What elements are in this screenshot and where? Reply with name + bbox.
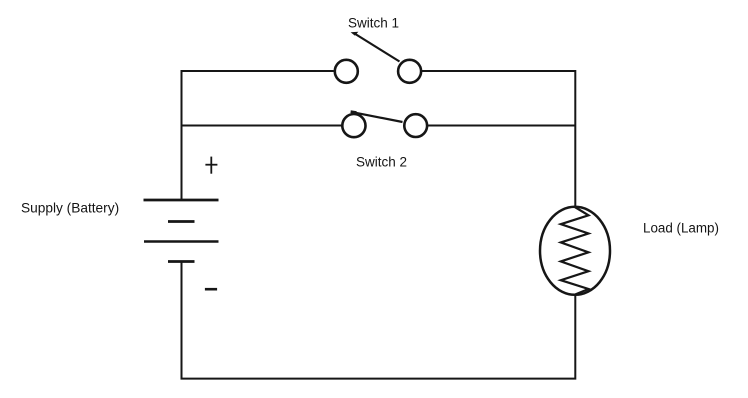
switch S1 left terminal circle: [335, 60, 358, 83]
battery B1 long plate (lower): [144, 240, 219, 242]
wire top rail left (battery top to Switch 1 left terminal): [182, 71, 334, 200]
switch S2 lever (nearly closed blade): [351, 112, 403, 122]
battery B1 positive plate (top long): [144, 199, 219, 202]
lamp LP1 filament zigzag: [561, 207, 589, 295]
battery B1 negative plate (bottom short): [168, 260, 195, 263]
battery plus symbol: [205, 157, 217, 174]
switch S2 right terminal circle: [404, 114, 427, 137]
svg-text:Supply (Battery): Supply (Battery): [21, 200, 119, 215]
switch S1 lever arrow tip: [351, 32, 359, 36]
svg-text:Switch 2: Switch 2: [356, 154, 407, 169]
battery B1 short plate (upper): [168, 220, 195, 223]
switch S2 left terminal circle: [342, 114, 365, 137]
wire bottom rail (battery bottom, down, across, up to lamp bottom): [182, 262, 576, 379]
battery minus symbol: [205, 288, 217, 291]
wire Switch 2 branch right (Switch 2 right terminal to right rail): [427, 125, 575, 127]
svg-text:Load (Lamp): Load (Lamp): [643, 221, 719, 236]
wire Switch 2 branch left (left rail to Switch 2 left terminal): [182, 125, 342, 127]
svg-text:Switch 1: Switch 1: [348, 15, 399, 30]
switch S2 lever arrow tip: [351, 110, 357, 114]
lamp LP1 envelope (ellipse): [540, 207, 610, 295]
switch S1 lever (open blade): [355, 34, 400, 62]
switch S1 right terminal circle: [398, 60, 421, 83]
wire top rail right (Switch 1 right terminal to right rail corner): [422, 71, 576, 207]
